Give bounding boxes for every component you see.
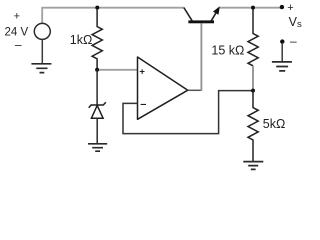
transistor Q1 emitter lead with arrow xyxy=(211,13,216,21)
wire: top rail right (emitter to +Vs terminal) xyxy=(220,7,282,9)
ground (output reference) xyxy=(272,62,292,71)
svg-text:–: – xyxy=(290,34,297,48)
resistor R3 5kOhm xyxy=(248,91,258,162)
svg-text:1kΩ: 1kΩ xyxy=(70,33,93,47)
wire: transistor base vertical xyxy=(200,23,202,91)
wire: 15k lower lead to node B xyxy=(252,66,254,90)
voltage source V1 24V xyxy=(34,23,50,39)
wire: -Vs terminal to ground xyxy=(281,43,283,62)
node dot A: 1k / zener / op-amp + xyxy=(95,68,99,72)
svg-text:+: + xyxy=(139,67,145,78)
wire: node A to op-amp + input xyxy=(97,69,137,71)
ground (24V source) xyxy=(31,64,51,73)
resistor R1 1kOhm xyxy=(92,9,102,68)
wire: zener anode to ground xyxy=(96,118,98,143)
terminal dot: +Vs output xyxy=(280,5,284,9)
svg-text:Vs: Vs xyxy=(289,15,302,30)
wire: top rail left (24V to transistor collector) xyxy=(42,8,184,23)
svg-text:–: – xyxy=(140,98,146,110)
wire: source negative to ground xyxy=(41,39,43,63)
transistor Q1 base bar xyxy=(188,20,214,23)
ground (5k resistor) xyxy=(243,162,263,170)
node dot: top rail / 1k junction xyxy=(95,6,99,10)
ground (zener) xyxy=(88,144,107,151)
wire: node A down to zener cathode xyxy=(96,70,98,105)
transistor Q1 collector lead xyxy=(184,8,192,21)
transistor Q1 emitter arrowhead xyxy=(213,6,220,15)
label 24 V with polarity xyxy=(5,10,29,51)
resistor R2 15kOhm xyxy=(248,9,258,66)
zener diode D1 xyxy=(89,102,106,118)
svg-text:+: + xyxy=(14,10,20,22)
svg-text:5kΩ: 5kΩ xyxy=(263,117,286,131)
node dot B: 15k / 5k / feedback junction xyxy=(251,89,255,93)
wire: feedback from node B to op-amp inverting input xyxy=(123,91,253,134)
node dot: top rail / 15k junction xyxy=(251,6,255,10)
wire: op-amp output xyxy=(188,89,202,91)
op-amp U1 xyxy=(138,57,188,119)
svg-text:+: + xyxy=(287,2,293,14)
terminal dot: -Vs output xyxy=(280,39,284,43)
svg-text:15 kΩ: 15 kΩ xyxy=(211,44,244,58)
svg-text:–: – xyxy=(15,37,22,51)
